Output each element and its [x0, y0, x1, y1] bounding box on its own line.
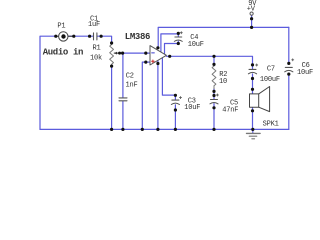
- node C6 terminals: [287, 62, 290, 65]
- wire output node: [166, 56, 252, 69]
- power terminal +V: [250, 12, 253, 15]
- connector P1: [56, 35, 74, 37]
- svg-text:10uF: 10uF: [188, 41, 204, 49]
- svg-text:1nF: 1nF: [126, 82, 138, 90]
- capacitor C4: [175, 36, 182, 38]
- wire C4 pin1 loop: [161, 34, 178, 52]
- svg-text:LM386: LM386: [125, 32, 150, 42]
- wire C2 branch: [122, 53, 124, 129]
- node +V stub: [250, 17, 253, 20]
- wire R1 bottom to rail: [111, 66, 113, 130]
- wire opamp pin4 to ground: [157, 60, 159, 129]
- svg-text:+V: +V: [247, 6, 256, 14]
- svg-text:R1: R1: [93, 45, 101, 53]
- svg-text:100uF: 100uF: [260, 76, 280, 84]
- resistor R1 (pot): [110, 43, 114, 66]
- wire plus input to ground: [142, 62, 150, 129]
- wire right riser: [288, 27, 290, 129]
- node input dots: [54, 35, 57, 38]
- wire speaker to rail: [252, 107, 254, 129]
- wire C4 pin8 loop: [165, 41, 179, 54]
- svg-text:10: 10: [219, 78, 227, 86]
- wire wiper to opamp minus input: [121, 52, 151, 54]
- op-amp U1 LM386 triangle: [150, 46, 166, 65]
- node wiper: [118, 52, 121, 55]
- svg-text:1uF: 1uF: [88, 21, 100, 29]
- svg-text:47nF: 47nF: [222, 106, 238, 114]
- node C7 terminals: [251, 63, 254, 66]
- wire C3 column: [174, 95, 176, 129]
- resistor R2: [212, 64, 216, 88]
- wire bottom ground rail: [40, 128, 289, 130]
- wire C7 to speaker: [252, 74, 254, 94]
- node rail junctions: [110, 128, 113, 131]
- ground: [252, 129, 254, 133]
- node R2 terminals: [212, 55, 215, 58]
- svg-text:P1: P1: [57, 23, 65, 31]
- svg-text:10uF: 10uF: [184, 104, 200, 112]
- op-amp minus sign: [152, 52, 155, 54]
- svg-text:Audio in: Audio in: [43, 48, 83, 58]
- capacitor C2: [119, 98, 127, 101]
- node C4 terminals: [177, 32, 180, 35]
- capacitor C1: [94, 33, 97, 40]
- wire top V+ rail: [158, 27, 289, 47]
- wire +V supply stub: [251, 15, 253, 27]
- wire R2 column: [213, 56, 215, 129]
- svg-text:10uF: 10uF: [297, 69, 313, 77]
- node speaker terminals: [251, 88, 254, 91]
- node R1 terminals: [110, 41, 113, 44]
- R1 wiper arrow: [114, 52, 119, 54]
- wire P1 to C1: [69, 36, 112, 43]
- wire input left loop: [40, 36, 56, 129]
- node pin6: [156, 46, 159, 49]
- node opamp inputs: [144, 52, 147, 55]
- node C3 terminals: [174, 94, 177, 97]
- svg-text:SPK1: SPK1: [263, 120, 279, 128]
- svg-text:C7: C7: [267, 66, 275, 74]
- capacitor C5: [211, 99, 218, 101]
- node output pin: [168, 55, 171, 58]
- capacitor C6: [285, 66, 292, 68]
- capacitor C3: [172, 99, 179, 101]
- node pin4: [156, 62, 159, 65]
- svg-text:C2: C2: [126, 72, 134, 80]
- wire opamp pin7 to C3: [162, 58, 175, 95]
- svg-text:10k: 10k: [90, 54, 102, 62]
- capacitor C7: [249, 68, 256, 70]
- op-amp plus sign: [152, 60, 155, 63]
- speaker SPK1: [250, 94, 259, 107]
